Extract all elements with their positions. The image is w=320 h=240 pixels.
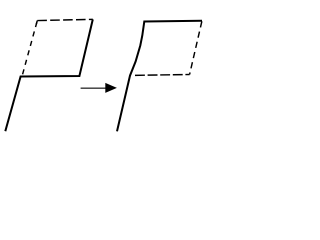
left figure solid path E-A-B-C (pole, bottom edge, right edge) bbox=[5, 19, 93, 131]
left figure dashed left edge D-A bbox=[22, 21, 37, 77]
right figure dashed bottom edge A'-B' bbox=[135, 74, 190, 77]
diagram: flag-path deformation, left figure -> arrow -> right figure bbox=[0, 0, 218, 139]
left figure dashed top edge D-C bbox=[37, 19, 93, 20]
right figure solid path E'-A'-D'-C' (pole, bowed left edge, top edge) bbox=[117, 21, 202, 132]
right figure dashed right edge B'-C' bbox=[190, 21, 202, 75]
arrow shaft bbox=[81, 87, 107, 89]
arrow head bbox=[105, 83, 117, 93]
corner hook at D (descender of corner dash) bbox=[35, 21, 38, 25]
